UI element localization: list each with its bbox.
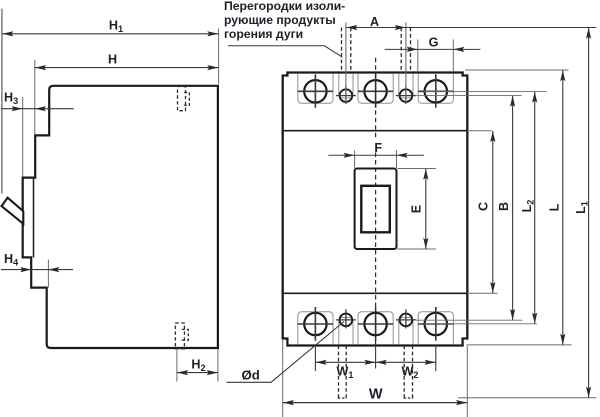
- dimension H4: [47, 260, 49, 288]
- rear terminal screws (hidden, dashed) left: [338, 346, 340, 399]
- terminal screw 2: [364, 80, 386, 102]
- handle window: [361, 186, 390, 233]
- dimension B: [416, 95, 522, 97]
- bottom small pocket at x=405.9: [399, 318, 413, 345]
- pole 3 centre line: [405, 23, 407, 104]
- svg-text:L: L: [548, 203, 562, 211]
- rear terminal screws (hidden, dashed) right: [403, 346, 405, 399]
- dimension W1: [315, 361, 375, 363]
- terminal screw 6: [425, 313, 447, 335]
- top small pocket at x=405.9: [399, 74, 413, 99]
- side view: toggle handle: [2, 198, 24, 224]
- svg-text:E: E: [409, 205, 423, 213]
- dimension H3: [22, 97, 24, 177]
- small hole 3 (diameter d): [340, 314, 353, 327]
- svg-text:Ød: Ød: [242, 368, 260, 383]
- svg-text:F: F: [374, 141, 382, 155]
- side view: top mounting slot (hidden, dashed): [178, 87, 186, 111]
- dimension W: [282, 339, 284, 417]
- svg-text:Перегородки изоли-: Перегородки изоли-: [224, 0, 345, 13]
- dimension G: [417, 40, 419, 73]
- handle escutcheon frame: [355, 169, 397, 250]
- small hole 1 (diameter d): [340, 89, 353, 102]
- bottom terminal pocket at x=435.8: [418, 312, 453, 345]
- front view: breaker body outline: [283, 73, 468, 346]
- terminal screw 3: [425, 80, 447, 102]
- top small pocket at x=345.9: [339, 74, 353, 99]
- dimension H1: [2, 33, 219, 35]
- dimension F: [354, 150, 356, 168]
- note leader line: [228, 46, 343, 58]
- side view: bottom mounting slot (hidden, dashed): [175, 323, 184, 349]
- svg-text:горения дуги: горения дуги: [224, 27, 303, 41]
- side view: breaker body outline: [23, 86, 218, 348]
- top terminal pocket at x=315.4: [298, 74, 333, 104]
- svg-text:W: W: [369, 386, 383, 402]
- dimension W2: [376, 361, 436, 363]
- dimension L1: [458, 397, 596, 399]
- label diameter d with leader: [227, 322, 345, 383]
- bottom terminal pocket at x=375.6: [358, 312, 393, 345]
- dimension E: [398, 168, 436, 170]
- terminal screw 1: [304, 80, 326, 102]
- centre pole axis (dashed): [375, 58, 377, 138]
- svg-text:A: A: [370, 15, 379, 29]
- dimension H1 extension line (handle tip): [1, 9, 3, 194]
- dimension H: [34, 60, 36, 134]
- svg-text:рующие продукты: рующие продукты: [224, 13, 336, 27]
- svg-text:G: G: [429, 36, 439, 50]
- pole 1 lower centre line: [314, 346, 316, 372]
- pole 3 lower centre line: [435, 346, 437, 372]
- bottom small pocket at x=345.9: [339, 318, 353, 345]
- svg-text:H: H: [108, 53, 117, 67]
- svg-text:C: C: [476, 202, 490, 211]
- dimension L: [465, 69, 569, 71]
- terminal screw 5: [364, 313, 386, 335]
- front view: top face separation line: [283, 130, 468, 132]
- svg-text:B: B: [497, 202, 511, 211]
- side view: front cover plate edge: [33, 178, 35, 258]
- pole 1 centre line: [345, 23, 347, 104]
- dimension C: [467, 130, 491, 132]
- small hole 4 (diameter d): [400, 314, 413, 327]
- top terminal pocket at x=375.6: [358, 74, 393, 104]
- small hole 2 (diameter d): [400, 89, 413, 102]
- terminal screw 4: [304, 313, 326, 335]
- arc-gas partitions (dashed): [341, 28, 343, 72]
- dimension H2: [176, 350, 178, 382]
- front view: bottom face separation line: [283, 292, 468, 294]
- top terminal pocket at x=435.8: [418, 74, 453, 104]
- dimension A and L1 top extension: [346, 27, 596, 29]
- bottom terminal pocket at x=315.4: [298, 312, 333, 345]
- dimension L2: [424, 90, 546, 92]
- dimension H1/H right extension line: [218, 29, 220, 85]
